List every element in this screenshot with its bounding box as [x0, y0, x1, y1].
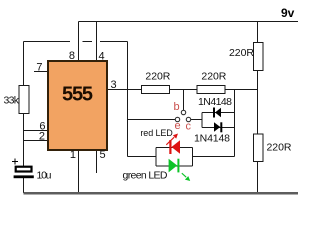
diode D2 1N4148 (lower, pointing right) — [214, 122, 222, 132]
wire pin 4 to rail — [96, 22, 98, 62]
wire e node left — [128, 119, 176, 121]
svg-text:33k: 33k — [4, 95, 20, 107]
svg-text:green LED: green LED — [123, 170, 168, 182]
wire left vertical middle — [23, 114, 25, 167]
wire diode box bottom branch — [202, 127, 235, 129]
wire diode box left edge — [201, 113, 203, 128]
svg-text:2: 2 — [39, 131, 45, 143]
wire between 220R resistors — [170, 89, 198, 91]
wire feedback vertical — [127, 42, 129, 157]
resistor R2 220R body (from pin 3) — [142, 86, 170, 94]
green LED pointer arrow — [182, 173, 190, 181]
node b circle — [181, 110, 185, 114]
diode D1 1N4148 (upper, pointing left) — [213, 108, 221, 118]
wire LED box left edge — [155, 148, 157, 167]
svg-text:220R: 220R — [145, 71, 170, 83]
wire LED box top branch — [156, 147, 193, 149]
svg-text:b: b — [174, 101, 180, 113]
svg-text:555: 555 — [62, 84, 93, 106]
red LED pointer arrow — [166, 134, 178, 145]
capacitor C1 10u top plate — [16, 167, 32, 172]
svg-text:3: 3 — [111, 79, 117, 91]
IC U1 555 timer body — [48, 61, 107, 150]
svg-text:4: 4 — [99, 51, 105, 63]
wire left vertical upper — [23, 42, 25, 86]
resistor R3 220R body (second in row) — [197, 86, 225, 94]
svg-text:1N4148: 1N4148 — [198, 96, 232, 108]
ground rail (0v) — [24, 192, 299, 194]
node e circle — [175, 117, 179, 121]
svg-text:e: e — [175, 120, 181, 132]
LED red (upper branch, pointing left) — [169, 140, 180, 154]
wire right rail upper — [257, 22, 259, 43]
svg-text:9v: 9v — [281, 6, 295, 20]
wire pin 3 output — [108, 89, 142, 91]
resistor R4 220R body (top right) — [254, 43, 264, 71]
svg-text:1N4148: 1N4148 — [194, 133, 230, 145]
node c circle — [186, 117, 190, 121]
wire diode box top branch — [202, 112, 235, 114]
wire pin 5 stub — [96, 151, 98, 173]
svg-text:7: 7 — [36, 62, 42, 74]
resistor R1 33k body — [19, 86, 29, 114]
svg-text:c: c — [186, 121, 192, 133]
LED green (lower branch, pointing right) — [169, 159, 180, 173]
svg-text:220R: 220R — [201, 71, 226, 83]
wire LED box bottom branch — [156, 165, 193, 167]
capacitor C1 10u bottom plate — [14, 175, 34, 178]
wire node b drop — [183, 90, 185, 111]
wire pin 2 stub — [24, 140, 48, 142]
wire c node to diode box — [191, 119, 203, 121]
wire left vertical lower — [23, 178, 25, 193]
wire pin 1 to ground — [78, 151, 80, 193]
svg-text:5: 5 — [100, 149, 106, 161]
wire pin 6 stub — [24, 130, 48, 132]
wire LED box entry — [128, 156, 157, 158]
svg-text:10u: 10u — [37, 170, 52, 182]
wire pin 7 stub — [34, 71, 48, 73]
wire feedback horizontal with hops — [24, 41, 128, 43]
wire LED box right edge — [192, 148, 194, 167]
resistor R5 220R body (bottom right) — [254, 134, 264, 162]
svg-text:red LED: red LED — [140, 128, 173, 138]
wire right rail middle — [257, 71, 259, 135]
capacitor C1 polarity plus — [12, 159, 18, 165]
wire after second 220R — [225, 89, 258, 91]
wire pin 8 to rail — [78, 22, 80, 62]
wire top 9v rail — [79, 21, 299, 23]
wire right rail lower — [257, 162, 259, 194]
wire diode box right edge — [234, 90, 236, 157]
wire LED box exit — [193, 156, 235, 158]
svg-text:220R: 220R — [267, 142, 292, 154]
svg-text:220R: 220R — [229, 47, 254, 59]
svg-text:8: 8 — [69, 50, 75, 62]
svg-text:1: 1 — [70, 149, 76, 161]
